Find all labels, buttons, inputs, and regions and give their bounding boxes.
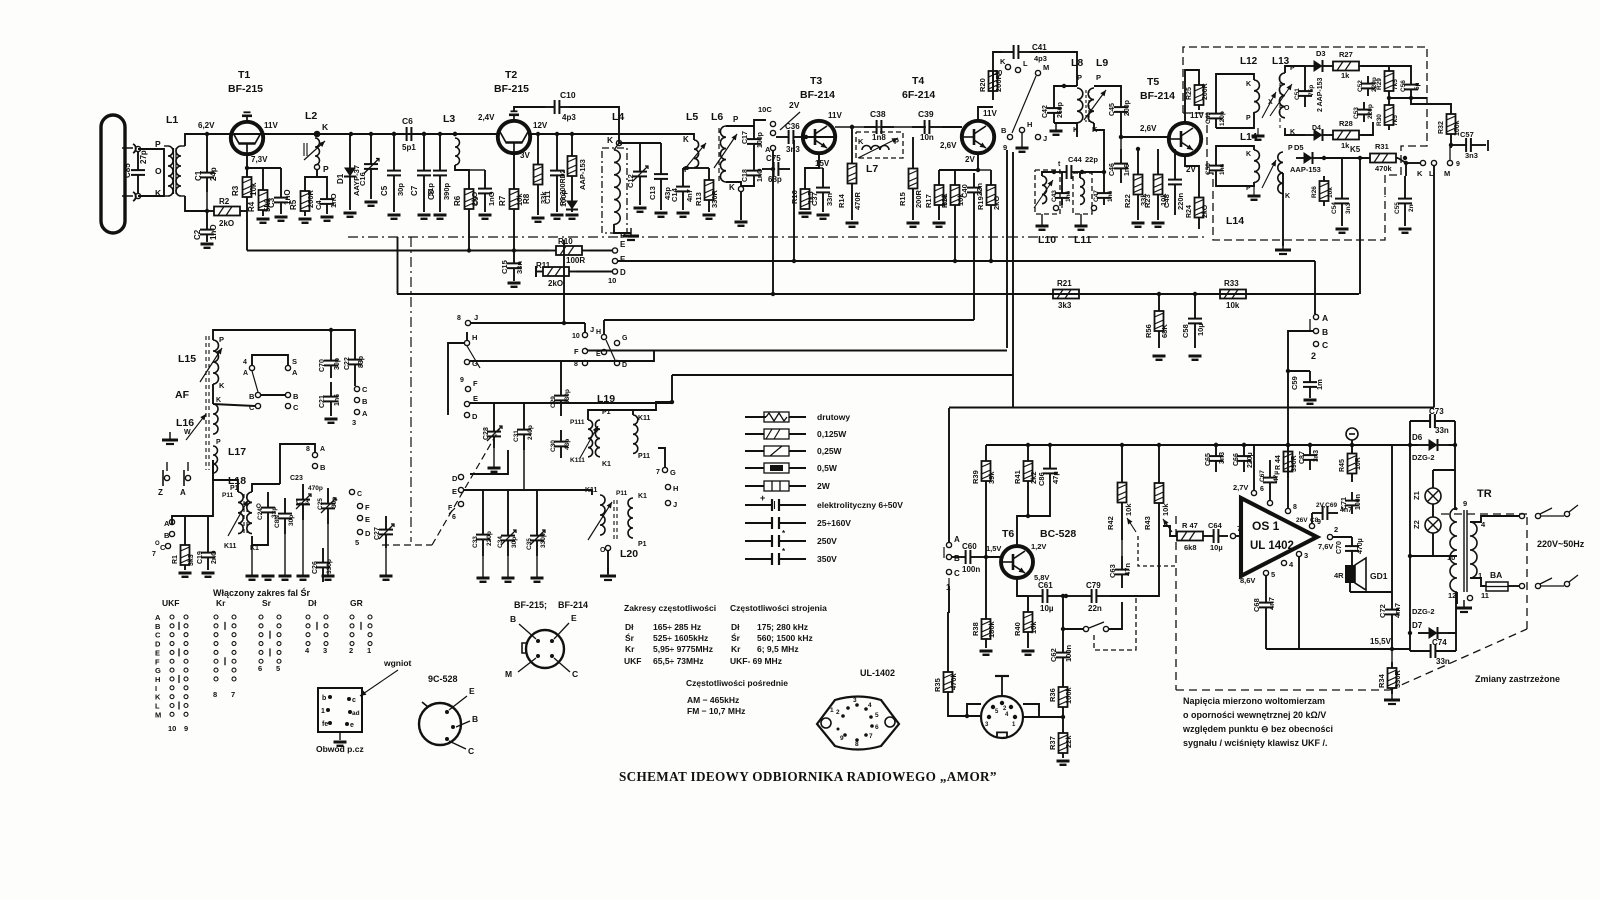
- svg-text:P: P: [216, 439, 221, 446]
- wire D7 right: [1448, 592, 1456, 633]
- svg-text:E: E: [620, 240, 626, 249]
- svg-text:9: 9: [1456, 161, 1460, 168]
- wire IF chain bus: [806, 127, 926, 137]
- resistor R8 33k: [522, 134, 548, 215]
- contact H sw: [464, 333, 477, 346]
- ground R1: [179, 573, 192, 577]
- legend 0,5W symbol: [745, 463, 806, 473]
- svg-text:C12: C12: [626, 174, 635, 188]
- ground L6: [735, 222, 748, 226]
- legend 0,125W text: [817, 429, 847, 439]
- svg-text:BF-214: BF-214: [800, 89, 835, 101]
- svg-text:10k: 10k: [249, 182, 258, 196]
- coil L14b: [1278, 145, 1293, 200]
- wire pin3 down: [1298, 557, 1300, 649]
- svg-text:C41: C41: [1032, 43, 1047, 52]
- svg-text:K: K: [1073, 125, 1079, 134]
- capacitor C86 47u: [1037, 445, 1060, 497]
- svg-text:R8: R8: [522, 193, 531, 204]
- svg-text:2,7V: 2,7V: [1233, 483, 1248, 492]
- svg-text:C33: C33: [472, 536, 479, 548]
- svg-text:330R: 330R: [710, 189, 719, 208]
- capacitor C38 1n8: [864, 109, 894, 142]
- svg-text:9: 9: [460, 377, 464, 384]
- wire L6 to C17: [726, 125, 754, 127]
- contact B sel: [1313, 327, 1328, 337]
- contact F sw: [465, 379, 478, 392]
- wire G to bus350: [470, 351, 654, 362]
- wire x1410 down: [1409, 445, 1411, 633]
- amplifier OS 1 UL 1402: [1241, 498, 1317, 576]
- coil L12: [1246, 80, 1276, 122]
- svg-text:C23: C23: [290, 475, 303, 482]
- svg-text:2: 2: [1311, 351, 1316, 361]
- svg-text:B: B: [164, 531, 170, 540]
- legend elektrolit symbol: [745, 493, 806, 511]
- svg-text:C71: C71: [1341, 497, 1348, 510]
- wire BA right: [1508, 585, 1519, 587]
- resistor R20 200R: [978, 62, 1003, 100]
- svg-text:1m: 1m: [1315, 379, 1324, 390]
- contact K L2: [314, 122, 329, 137]
- label L17: [228, 446, 246, 458]
- svg-text:7,3V: 7,3V: [251, 155, 268, 164]
- label L16: [176, 417, 194, 429]
- svg-text:3: 3: [1304, 551, 1308, 560]
- svg-text:C27: C27: [374, 527, 381, 540]
- capacitor C71 100n: [1341, 492, 1362, 514]
- coil L7: [858, 137, 899, 158]
- svg-text:L: L: [155, 702, 160, 711]
- capacitor C10 4p3: [545, 90, 576, 122]
- svg-text:220n: 220n: [1176, 192, 1185, 210]
- wire C56 top: [1389, 66, 1411, 76]
- wire R18 down to bus262: [954, 220, 956, 261]
- wire pin2 to C70: [1333, 536, 1352, 538]
- ground C9: [479, 215, 492, 219]
- svg-text:C49: C49: [1205, 112, 1212, 124]
- svg-text:47n: 47n: [1123, 563, 1132, 576]
- svg-text:1n8: 1n8: [872, 133, 886, 142]
- svg-text:C38: C38: [870, 109, 886, 119]
- capacitor C46 1n6: [1109, 137, 1131, 183]
- label 9C-528: [428, 674, 458, 684]
- dashed boundary top: [1440, 513, 1527, 515]
- svg-text:C37: C37: [810, 192, 819, 206]
- wire antenna bottom to L1 primary: [138, 176, 164, 196]
- label K L6: [729, 183, 735, 192]
- label L9: [1096, 57, 1108, 69]
- contact C36 area A2: [770, 130, 775, 135]
- svg-text:Napięcia mierzono woltomierzam: Napięcia mierzono woltomierzam: [1183, 696, 1325, 706]
- diode D3: [1305, 49, 1331, 72]
- wire C56 to R32: [1411, 98, 1451, 108]
- ground C7: [418, 215, 431, 219]
- svg-text:BF-215;: BF-215;: [514, 600, 547, 610]
- capacitor C29 330p: [550, 380, 571, 416]
- contact C left: [249, 403, 261, 412]
- node rail C66: [1242, 443, 1246, 447]
- dashed boundary diagonal: [1390, 629, 1527, 690]
- coil L4: [614, 143, 620, 224]
- label L10: [1038, 234, 1056, 246]
- svg-text:100R: 100R: [566, 256, 585, 265]
- core L15 dashed: [206, 336, 209, 470]
- wire pin9 wiring: [1311, 513, 1313, 523]
- capacitor C55 2n: [1394, 176, 1415, 226]
- switch lever M-B: [1012, 76, 1036, 133]
- svg-text:T1: T1: [238, 69, 250, 81]
- svg-text:1nO: 1nO: [757, 168, 764, 182]
- ground R16: [799, 213, 812, 217]
- svg-text:C8N: C8N: [274, 515, 281, 528]
- coil L9: [1084, 73, 1106, 134]
- svg-text:65,5÷ 73MHz: 65,5÷ 73MHz: [653, 656, 704, 666]
- svg-text:C19: C19: [197, 551, 204, 564]
- ground C37: [817, 215, 830, 219]
- svg-text:K: K: [1417, 169, 1423, 178]
- wire L12 top: [1216, 74, 1254, 104]
- node C56 R32: [1409, 96, 1413, 100]
- svg-text:R2: R2: [219, 197, 230, 206]
- svg-text:260p: 260p: [1057, 102, 1064, 118]
- table col Dl: [308, 598, 317, 608]
- resistor R45 10R: [1339, 445, 1362, 482]
- svg-text:C40: C40: [960, 184, 969, 198]
- capacitor C37 33n: [810, 168, 834, 212]
- svg-text:525÷ 1605kHz: 525÷ 1605kHz: [653, 633, 708, 643]
- ground R17: [933, 223, 946, 227]
- ground C8: [434, 215, 447, 219]
- svg-text:B: B: [362, 397, 368, 406]
- capacitor C68 4n7: [1252, 592, 1276, 618]
- svg-text:UKF: UKF: [162, 598, 179, 608]
- resistor R35 470k: [933, 666, 958, 698]
- wire pin5 down: [1265, 576, 1267, 592]
- resistor R18 10k: [940, 170, 965, 220]
- svg-text:C17: C17: [742, 131, 749, 144]
- svg-text:C34: C34: [497, 536, 504, 548]
- svg-text:L4: L4: [612, 111, 624, 123]
- contact E col: [596, 349, 607, 358]
- wire C70 to speaker: [1351, 560, 1353, 565]
- svg-text:6,2V: 6,2V: [198, 121, 215, 130]
- svg-text:R41: R41: [1013, 470, 1022, 484]
- svg-text:E: E: [469, 686, 475, 696]
- capacitor C53 220p: [1353, 102, 1374, 122]
- label D5: [1294, 143, 1304, 152]
- svg-text:1: 1: [830, 707, 834, 714]
- svg-text:UKF: UKF: [624, 656, 641, 666]
- svg-text:BA: BA: [1490, 570, 1502, 580]
- svg-text:11V: 11V: [264, 121, 278, 130]
- svg-text:UKF- 69 MHz: UKF- 69 MHz: [730, 656, 782, 666]
- wire bus320 left end: [603, 320, 605, 334]
- svg-text:C59: C59: [1290, 376, 1299, 390]
- wire C41 to L8: [1030, 52, 1077, 86]
- label C1: [194, 167, 218, 181]
- svg-text:O: O: [155, 541, 160, 547]
- node R14 bus: [850, 125, 854, 129]
- svg-text:C43: C43: [1051, 190, 1058, 202]
- wire L5 P to C14/R13 loop: [683, 167, 694, 169]
- wire L19 wiring top: [588, 410, 633, 420]
- svg-text:G: G: [622, 335, 628, 342]
- wire bus y262: [618, 260, 1315, 262]
- label L7: [866, 163, 878, 175]
- svg-text:180k: 180k: [987, 620, 996, 638]
- contact L6 bottom: [738, 186, 743, 191]
- svg-text:4: 4: [868, 702, 872, 709]
- wire Z1-Z2: [1432, 504, 1434, 517]
- switch lever A-B: [1309, 319, 1311, 332]
- node R32 bottom: [1449, 143, 1453, 147]
- table col UKF: [162, 598, 179, 608]
- wire J bus: [471, 322, 585, 324]
- svg-text:C31: C31: [513, 430, 520, 442]
- wire R1 top: [172, 516, 185, 540]
- svg-text:D6: D6: [1412, 433, 1423, 442]
- svg-text:B: B: [155, 622, 161, 631]
- svg-text:GD1: GD1: [1370, 571, 1388, 581]
- contact F6: [448, 501, 464, 521]
- svg-text:3n3: 3n3: [1345, 202, 1352, 214]
- svg-text:11V: 11V: [983, 109, 997, 118]
- svg-text:330R: 330R: [1393, 669, 1402, 688]
- label AAP-153 rotated: [578, 159, 587, 190]
- text Czestotliwosci strojenia: [730, 603, 827, 613]
- coil L6: [714, 126, 737, 182]
- capacitor C15 33n: [500, 251, 524, 282]
- svg-text:A: A: [1322, 313, 1328, 323]
- svg-text:0,125W: 0,125W: [817, 429, 847, 439]
- legend elektrolit text: [817, 500, 903, 510]
- contact M T4: [1035, 63, 1049, 76]
- svg-text:C: C: [468, 746, 474, 756]
- svg-text:7: 7: [869, 733, 873, 740]
- wire L13 top to D3: [1285, 66, 1305, 73]
- wire vert x794: [793, 140, 795, 261]
- wire L20 gnd: [607, 551, 609, 574]
- svg-text:O: O: [1284, 105, 1290, 112]
- transistor T4: [962, 121, 994, 153]
- capacitor C27 variable: [374, 516, 394, 548]
- svg-text:R4: R4: [247, 201, 256, 212]
- svg-text:1nO: 1nO: [487, 191, 496, 206]
- svg-text:1n6: 1n6: [1065, 190, 1072, 202]
- svg-text:R21: R21: [1057, 279, 1072, 288]
- svg-text:wgniot: wgniot: [383, 658, 412, 668]
- node C47 top: [1102, 170, 1106, 174]
- label 9 sw: [460, 377, 464, 384]
- wire R35 top: [947, 612, 949, 666]
- capacitor C30 43p: [550, 430, 571, 458]
- svg-text:R19: R19: [976, 196, 985, 210]
- contact H r: [665, 484, 678, 493]
- contact K R20: [1000, 57, 1011, 70]
- svg-text:K11: K11: [224, 543, 237, 550]
- node P: [155, 139, 161, 149]
- text Czestotliwosci posrednie: [686, 678, 788, 688]
- contact L right: [1429, 160, 1437, 178]
- svg-text:5: 5: [875, 712, 879, 719]
- coil L3: [443, 113, 460, 165]
- label 1,5V: [986, 544, 1001, 553]
- label C48 220n mark: [0, 0, 1, 1]
- svg-text:ad: ad: [352, 710, 360, 717]
- svg-text:3k3: 3k3: [1058, 301, 1072, 310]
- svg-text:4n7: 4n7: [1267, 597, 1276, 610]
- wire vert x397: [397, 237, 399, 294]
- dashed boundary bottom: [1176, 689, 1390, 691]
- wire C62 to R36: [1062, 670, 1064, 682]
- svg-text:Dł: Dł: [731, 622, 740, 632]
- wire C19 top: [207, 516, 209, 540]
- svg-text:R42: R42: [1106, 516, 1115, 530]
- wire J col stub: [584, 323, 586, 332]
- resistor R25 200R: [1186, 80, 1209, 110]
- contact C t6: [946, 569, 960, 592]
- node x773 bus294: [771, 292, 775, 296]
- node DIN R36: [1061, 715, 1065, 719]
- svg-text:2nO: 2nO: [211, 550, 218, 564]
- ground C4: [321, 217, 334, 221]
- connector DIN: [981, 676, 1023, 738]
- legend 0,25W symbol: [745, 446, 806, 456]
- resistor R6 2k0: [453, 186, 479, 212]
- svg-text:470k: 470k: [1375, 164, 1393, 173]
- wire L1 bottom to ground rail: [185, 196, 207, 211]
- capacitor C72 4m7: [1378, 602, 1402, 622]
- svg-text:A: A: [320, 446, 325, 453]
- contact C low: [152, 541, 171, 558]
- wire DIN to R36: [1023, 716, 1063, 718]
- label 11V T3: [828, 111, 842, 120]
- coil L16: [213, 397, 221, 446]
- wire lamps vert: [1432, 470, 1434, 488]
- svg-text:33n: 33n: [825, 193, 834, 206]
- contact pin4: [1281, 560, 1294, 569]
- svg-text:3V: 3V: [520, 151, 530, 160]
- svg-text:DZG-2: DZG-2: [1412, 607, 1435, 616]
- wire R28 right: [1361, 122, 1373, 135]
- contact D c23: [355, 529, 371, 547]
- svg-text:10C: 10C: [758, 105, 772, 114]
- text zakresy rows: [624, 622, 713, 666]
- wire main bus T1-T2: [185, 133, 619, 135]
- svg-text:3n3: 3n3: [1465, 151, 1478, 160]
- wire L3 down to R6: [455, 165, 469, 186]
- legend 350V symbol: [745, 547, 806, 565]
- label BF-215 BF-214: [514, 600, 588, 610]
- svg-text:K1: K1: [638, 493, 647, 500]
- label L4: [612, 111, 624, 123]
- coil L1 secondary: [176, 146, 185, 196]
- ground R8: [532, 218, 545, 222]
- svg-text:C57: C57: [1460, 130, 1474, 139]
- svg-text:P: P: [1077, 73, 1082, 82]
- svg-text:6: 6: [452, 514, 456, 521]
- transformer TR secondary: [1470, 520, 1489, 600]
- svg-text:220p: 220p: [1367, 104, 1374, 119]
- svg-text:2: 2: [349, 646, 353, 655]
- wire speaker to rail: [1350, 591, 1392, 593]
- svg-text:C10: C10: [560, 90, 576, 100]
- svg-text:C70: C70: [319, 359, 326, 372]
- svg-text:Częstotliwości strojenia: Częstotliwości strojenia: [730, 603, 827, 613]
- dashed boundary right: [1526, 514, 1528, 629]
- wire C17 to 10C rail: [754, 120, 766, 128]
- label L15: [178, 353, 196, 365]
- node Z2 x1410: [1408, 554, 1412, 558]
- svg-text:100p: 100p: [757, 132, 764, 148]
- svg-text:L8: L8: [1071, 57, 1083, 69]
- capacitor C28 var: [483, 420, 502, 448]
- capacitor C21 1n6: [319, 382, 341, 416]
- svg-text:L7: L7: [866, 163, 878, 175]
- svg-text:L17: L17: [228, 446, 246, 458]
- ground H T4: [1016, 133, 1029, 152]
- legend 250V symbol: [745, 529, 806, 547]
- ground L14a: [1248, 186, 1261, 200]
- label P11 L18: [222, 485, 239, 499]
- wire Z2 down: [1410, 533, 1433, 556]
- svg-text:Dł: Dł: [625, 622, 634, 632]
- diode D6: [1412, 433, 1448, 462]
- svg-text:1,5V: 1,5V: [986, 544, 1001, 553]
- label wgniot: [360, 658, 412, 696]
- svg-text:F: F: [155, 657, 160, 666]
- svg-text:C: C: [572, 669, 578, 679]
- wire E to caps: [464, 490, 592, 495]
- capacitor C74 33n: [1410, 638, 1456, 666]
- svg-text:K111: K111: [570, 457, 585, 464]
- wire L contact long vertical: [1433, 166, 1435, 408]
- svg-text:sygnału / wciśnięty klawisz: sygnału / wciśnięty klawisz UKF /.: [1183, 738, 1328, 748]
- svg-text:2: 2: [1334, 525, 1338, 534]
- svg-text:240p: 240p: [527, 425, 534, 440]
- svg-text:30p: 30p: [334, 358, 341, 370]
- label K1 L18: [250, 545, 259, 552]
- svg-text:175; 280 kHz: 175; 280 kHz: [757, 622, 808, 632]
- resistor R5 200R: [289, 186, 315, 216]
- svg-text:C48: C48: [1162, 194, 1171, 208]
- svg-text:Włączony zakres fal Śr: Włączony zakres fal Śr: [213, 587, 311, 598]
- capacitor C58 10u: [1181, 294, 1205, 348]
- svg-text:560; 1500 kHz: 560; 1500 kHz: [757, 633, 813, 643]
- label C23: [290, 475, 303, 482]
- svg-text:250V: 250V: [817, 536, 837, 546]
- svg-text:C23: C23: [296, 499, 309, 506]
- svg-text:C36: C36: [785, 122, 800, 131]
- svg-text:G: G: [670, 468, 676, 477]
- dashed boundary vertical: [1175, 516, 1177, 690]
- svg-text:J: J: [673, 500, 677, 509]
- ground C35: [531, 556, 544, 582]
- resistor R34 330R: [1377, 649, 1402, 694]
- node R19 bus262: [989, 259, 993, 263]
- svg-text:R23: R23: [1143, 194, 1152, 208]
- contact P L2: [314, 164, 329, 174]
- resistor R42 10k pot: [1106, 445, 1136, 540]
- svg-text:R22: R22: [1123, 194, 1132, 208]
- ground R5: [299, 219, 312, 223]
- label L6: [711, 111, 723, 123]
- capacitor C9 1n0: [469, 170, 496, 212]
- svg-text:K: K: [216, 397, 221, 404]
- svg-text:D7: D7: [1412, 621, 1423, 630]
- svg-text:10k: 10k: [1124, 503, 1133, 516]
